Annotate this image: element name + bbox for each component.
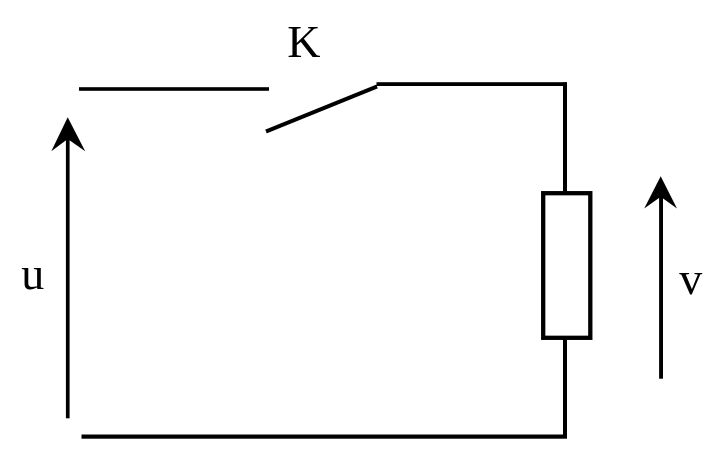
svg-text:K: K xyxy=(287,16,320,67)
voltage arrow v (head) xyxy=(644,176,677,208)
svg-text:u: u xyxy=(21,248,44,299)
wire: right vertical upper xyxy=(563,82,567,191)
wire: top-left horizontal xyxy=(79,87,269,91)
switch K (open blade) xyxy=(266,87,377,132)
svg-text:v: v xyxy=(679,253,702,304)
wire: top-right horizontal xyxy=(377,82,568,86)
resistor (load rectangle) xyxy=(543,193,590,338)
wire: bottom horizontal xyxy=(82,435,568,439)
voltage arrow u (head) xyxy=(51,117,85,151)
wire: right vertical lower xyxy=(563,338,567,439)
voltage arrow v (shaft) xyxy=(659,195,663,379)
voltage arrow u (shaft) xyxy=(66,136,70,418)
